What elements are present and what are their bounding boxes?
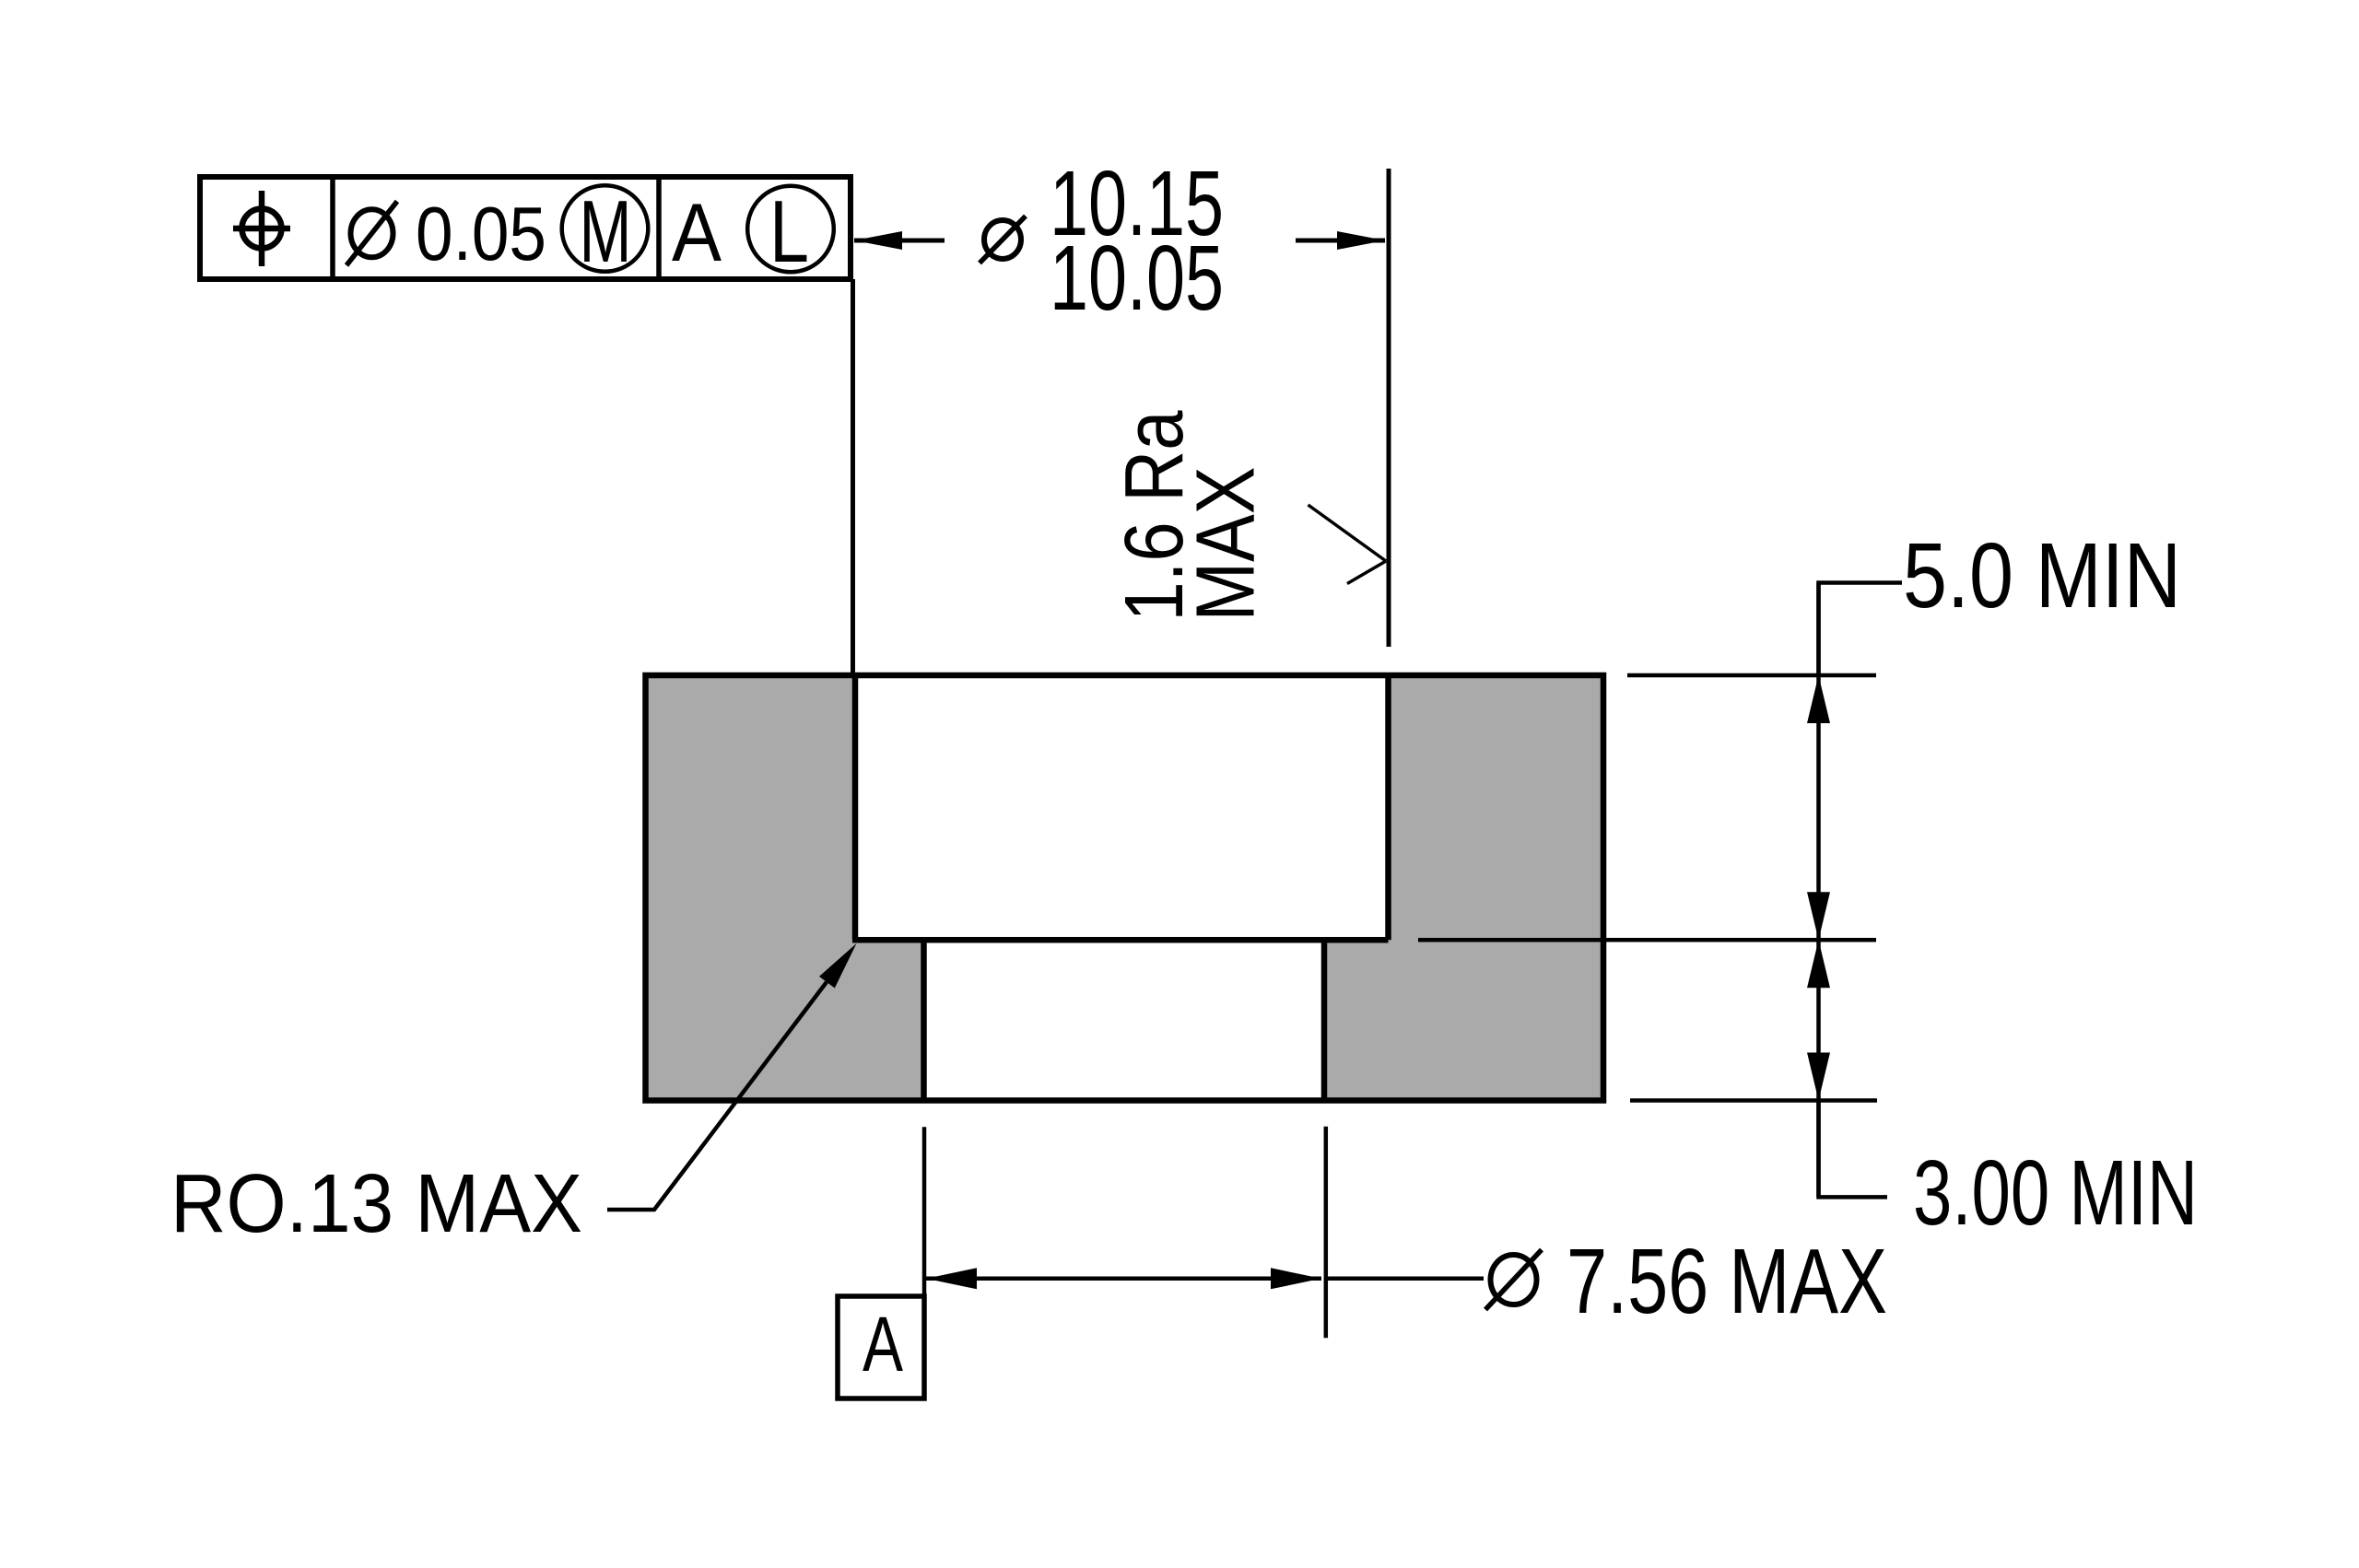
M modifier circle (562, 182, 649, 281)
svg-text:A: A (672, 186, 722, 278)
surface finish note 1.6 Ra MAX (rotated) (1109, 410, 1273, 622)
diameter symbol small (980, 216, 1026, 263)
lower bore left wall (921, 940, 927, 1100)
lower bore dimension line with outward arrows (926, 1268, 1484, 1289)
shoulder face (852, 937, 1389, 943)
diameter 7.56 MAX text (1485, 1250, 1542, 1310)
arrowhead up at shoulder (below) (1807, 940, 1830, 988)
position symbol (233, 191, 290, 266)
svg-text:0.05: 0.05 (416, 191, 546, 276)
svg-text:7.56 MAX: 7.56 MAX (1567, 1230, 1887, 1333)
svg-text:10.05: 10.05 (1050, 227, 1224, 330)
part cross-section left gray section (646, 675, 924, 1101)
arrowhead down at bottom edge (1807, 1053, 1830, 1101)
tolerance value 0.05 diameter (346, 202, 397, 266)
svg-text:L: L (769, 182, 809, 281)
dimension arrow left (points to frame line) (854, 231, 945, 250)
svg-text:A: A (863, 1301, 903, 1387)
left extension line for lower bore diameter (922, 1127, 927, 1398)
dimension arrow right (1296, 231, 1385, 250)
vertical dimension line (1816, 583, 1821, 1198)
shoulder extension line right (1418, 938, 1876, 942)
L modifier circle (747, 182, 834, 281)
bottom edge extension line right (1630, 1098, 1877, 1103)
svg-text:MAX: MAX (1180, 467, 1273, 622)
svg-text:3.00 MIN: 3.00 MIN (1913, 1141, 2198, 1245)
right extension line of bore diameter (1387, 169, 1391, 647)
part outer outline (646, 675, 1604, 1101)
counterbore left wall (852, 675, 859, 940)
surface finish symbol (check mark against bore wall) (1309, 505, 1387, 584)
part cross-section right gray section (1324, 675, 1603, 1101)
top edge extension line right (1627, 673, 1876, 678)
3.00 MIN callout bracket (1819, 1101, 1888, 1198)
arrowhead up at top edge (1807, 675, 1830, 723)
counterbore right wall (1385, 675, 1391, 940)
svg-text:5.0 MIN: 5.0 MIN (1903, 524, 2181, 627)
arrowhead down at shoulder (1807, 892, 1830, 940)
svg-text:RO.13 MAX: RO.13 MAX (170, 1158, 582, 1250)
projection line from frame down to bore (851, 279, 855, 675)
feature control frame (200, 177, 851, 279)
5.0 MIN callout bracket (1819, 583, 1903, 676)
svg-text:M: M (580, 182, 632, 281)
right extension line for lower bore diameter (1324, 1127, 1329, 1339)
lower bore right wall (1321, 940, 1328, 1100)
datum feature box A (838, 1296, 924, 1398)
RO.13 leader line (607, 943, 857, 1210)
